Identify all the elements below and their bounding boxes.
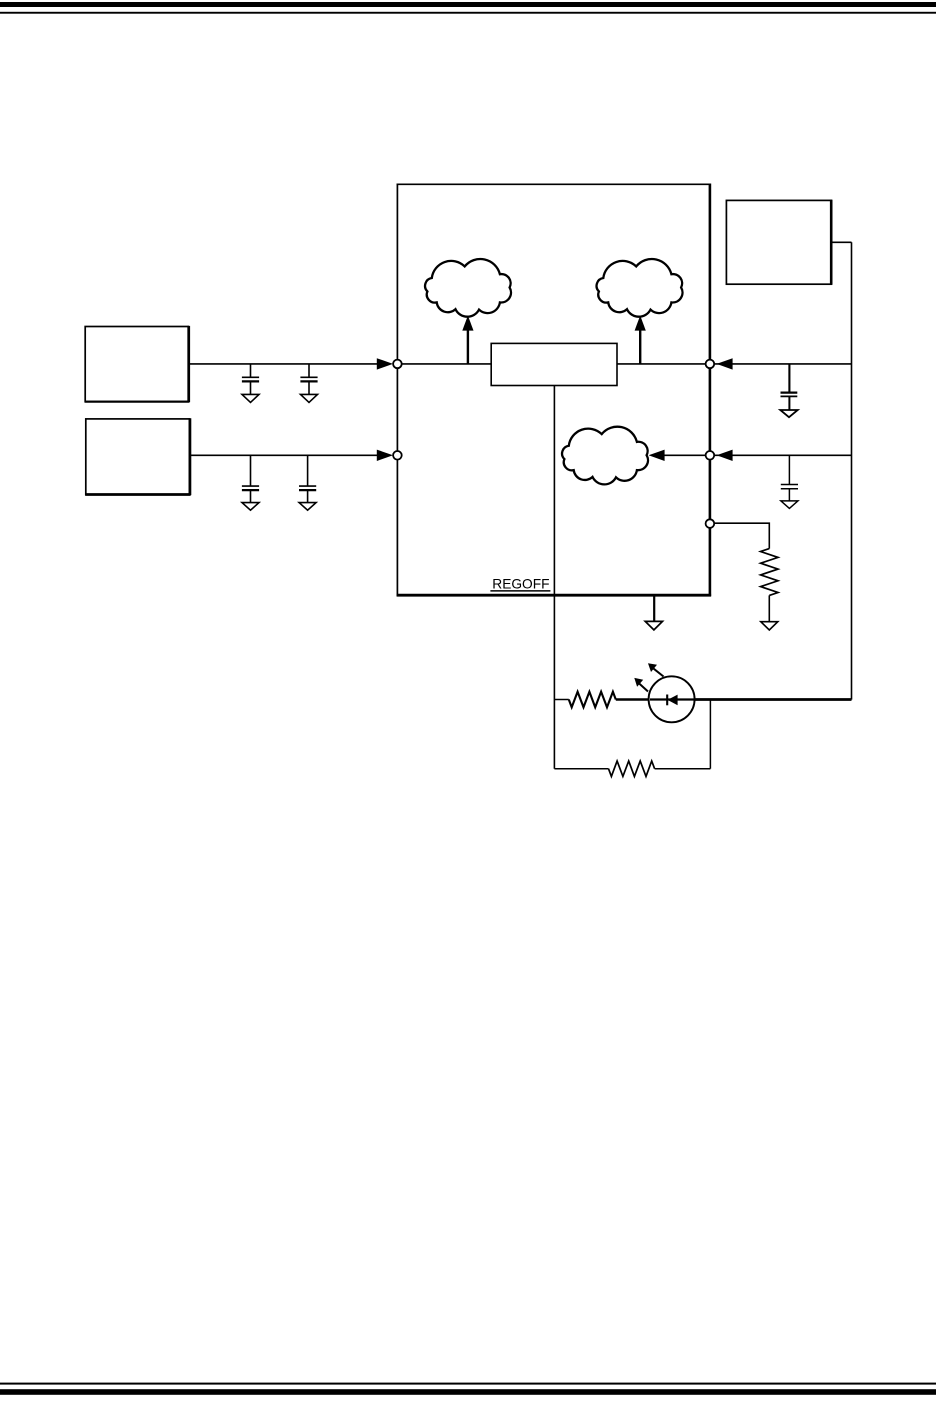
cloud 2 [597, 259, 683, 317]
terminal pin 1 left [393, 360, 402, 369]
inner regulator block [491, 343, 617, 385]
resistor R1 [569, 692, 616, 708]
wire R1 to LED [616, 698, 650, 701]
left source box B2 [85, 418, 190, 495]
arrowhead into U1 right pin 2 [717, 450, 733, 461]
IC block U1 (main outline) [397, 184, 711, 597]
capacitor C1 [242, 364, 259, 403]
terminal pin 2 left [393, 451, 402, 460]
header rule thin [0, 12, 936, 14]
svg-text:REGOFF: REGOFF [492, 576, 549, 592]
wire: right pin row 1 to right rail [710, 363, 852, 365]
wire R2 row right segment [655, 768, 711, 770]
LED D1 diode triangle [668, 695, 678, 706]
arrow into cloud 3 [649, 450, 665, 461]
wire: right pin row 2 to right rail [710, 454, 852, 456]
terminal pin 1 right [706, 360, 715, 369]
arrowhead into U1 pin 1 [377, 358, 393, 369]
arrow to cloud 2 [635, 316, 646, 364]
wire stub to R1 [554, 699, 568, 701]
ground symbol below U1 [645, 621, 662, 630]
internal bus wire right segment [617, 363, 710, 365]
wire R2 row left segment [554, 768, 608, 770]
REGOFF underline [490, 590, 550, 592]
header rule thick [0, 2, 936, 7]
arrowhead into U1 right pin 1 [717, 358, 733, 369]
footer rule thick [0, 1389, 936, 1395]
capacitor C2 [300, 364, 317, 403]
capacitor C4 [299, 455, 316, 510]
resistor R3 [761, 549, 778, 596]
right rail vertical wire [851, 242, 853, 699]
capacitor C5 (bold) [780, 364, 797, 417]
wire from B3 to right rail [831, 241, 851, 243]
wire: B2 to U1 left pin (net VIN2) [190, 454, 378, 456]
LED D1 wire through [650, 698, 694, 700]
terminal pin 2 right [706, 451, 715, 460]
capacitor C6 [781, 455, 798, 508]
wire from inner block down (net REGOFF) [553, 386, 555, 769]
wire from U1 right pin 3 to R3 [714, 523, 769, 548]
LED D1 circle [649, 676, 695, 722]
capacitor C3 [242, 455, 259, 510]
footer rule thin [0, 1383, 936, 1385]
LED D1 emission arrow lower [634, 678, 648, 692]
wire R3 to ground [768, 595, 770, 621]
LED D1 cathode bar [666, 695, 668, 706]
wire LED row down to R2 row [709, 700, 711, 769]
arrowhead into U1 pin 2 [377, 450, 393, 461]
left source box B1 [85, 326, 190, 402]
terminal pin 3 right [706, 519, 715, 528]
cloud 1 [425, 259, 511, 317]
internal bus wire left segment [397, 363, 491, 365]
cloud 3 [562, 427, 648, 485]
ground stem below U1 [653, 595, 655, 622]
ground below R3 [761, 622, 778, 630]
resistor R2 [609, 761, 655, 776]
LED D1 emission arrow upper [648, 663, 664, 676]
wire cloud3 arrow to U1 right edge [664, 454, 710, 456]
arrow to cloud 1 [462, 316, 473, 364]
wire: B1 to U1 left pin (net VIN1) [189, 363, 378, 365]
wire LED to right rail [694, 698, 852, 701]
top right box B3 [726, 200, 831, 285]
